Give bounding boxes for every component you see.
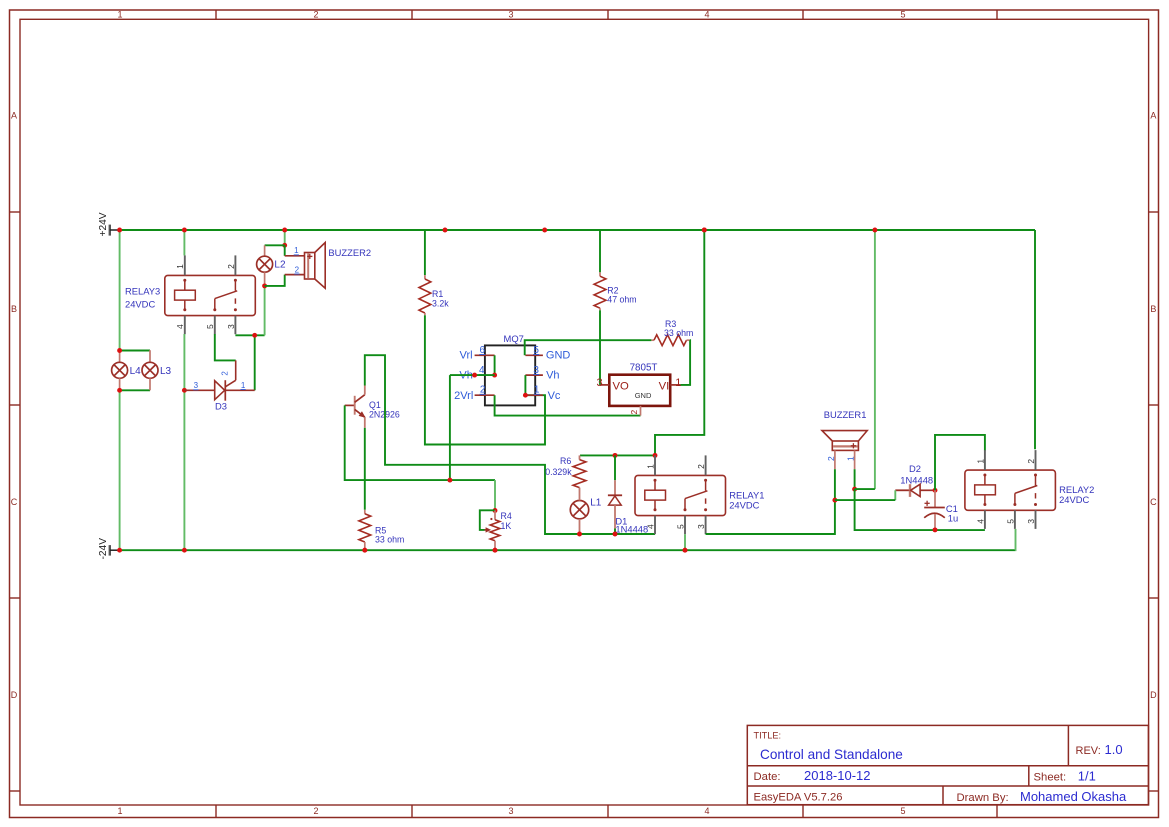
svg-text:3: 3 — [194, 381, 199, 390]
transistor Q1 — [345, 404, 355, 406]
wire +24V to lamps (light) — [119, 230, 121, 351]
svg-text:7805T: 7805T — [630, 363, 658, 374]
junction base net — [447, 478, 452, 483]
thyristor D3 — [184, 389, 214, 391]
wire R1 to MQ7 Vc — [425, 315, 545, 444]
junction +24V rail — [182, 228, 187, 233]
wire D2 cathode jog (light) — [894, 490, 896, 500]
wire R2 to 7805 VO — [599, 310, 601, 385]
wire MQ7 pin4 left — [450, 374, 495, 376]
svg-text:RELAY3: RELAY3 — [125, 285, 160, 296]
wire R6 top net — [580, 454, 655, 456]
svg-text:Vh: Vh — [546, 370, 559, 382]
junction rail dot b — [542, 228, 547, 233]
svg-text:BUZZER1: BUZZER1 — [824, 409, 867, 420]
junction R4 rail — [493, 548, 498, 553]
junction D2 anode node — [933, 488, 938, 493]
svg-text:24VDC: 24VDC — [125, 299, 155, 310]
svg-text:3: 3 — [1026, 519, 1036, 524]
wire Q1 collector loop — [365, 355, 655, 534]
lamp L4 — [119, 351, 121, 363]
junction D3 pin3 node — [182, 388, 187, 393]
wire lamp bottom jumper — [120, 389, 150, 391]
junction -24V rail — [182, 548, 187, 553]
svg-text:3: 3 — [226, 324, 236, 329]
svg-text:3: 3 — [508, 806, 513, 816]
svg-text:4: 4 — [704, 806, 709, 816]
wire MQ7 pin4 to base net — [449, 375, 451, 480]
svg-text:1/1: 1/1 — [1078, 768, 1096, 783]
wire rail to R2 — [599, 230, 601, 272]
potentiometer R4 — [485, 529, 489, 531]
lamp L2 — [264, 245, 266, 256]
junction BUZZER1 pin1 node — [852, 487, 857, 492]
svg-text:Sheet:: Sheet: — [1034, 771, 1067, 783]
resistor R6 — [579, 455, 581, 459]
svg-text:R6: R6 — [560, 456, 571, 466]
svg-text:-24V: -24V — [98, 538, 109, 560]
svg-text:L4: L4 — [130, 366, 142, 377]
title block — [747, 725, 1148, 804]
svg-text:2: 2 — [226, 264, 236, 269]
-24V power flag — [109, 545, 111, 556]
junction bottom lamps — [117, 388, 122, 393]
svg-text:4: 4 — [645, 524, 655, 529]
svg-text:3: 3 — [597, 377, 603, 389]
junction +24V rail — [872, 228, 877, 233]
IC MQ7 gas sensor — [485, 345, 535, 405]
svg-text:1: 1 — [117, 806, 122, 816]
resistor R2 — [599, 272, 601, 276]
svg-text:R4: R4 — [501, 511, 512, 521]
svg-text:5: 5 — [1005, 519, 1015, 524]
svg-text:1: 1 — [175, 264, 185, 269]
svg-text:D: D — [1150, 690, 1157, 700]
junction -24V rail — [362, 548, 367, 553]
junction rail dot feed — [702, 228, 707, 233]
wire rail to R1 — [424, 230, 426, 275]
svg-text:VI: VI — [659, 380, 670, 392]
wire +24V rail — [120, 229, 1035, 231]
svg-text:33 ohm: 33 ohm — [375, 535, 404, 545]
resistor R1 — [424, 275, 426, 279]
svg-text:1N4448: 1N4448 — [615, 524, 648, 535]
svg-text:2: 2 — [313, 806, 318, 816]
svg-text:L1: L1 — [590, 498, 602, 509]
svg-text:B: B — [1150, 304, 1156, 314]
svg-text:5: 5 — [900, 806, 905, 816]
diode D1 — [614, 455, 616, 480]
svg-text:GND: GND — [546, 350, 571, 362]
svg-text:33 ohm: 33 ohm — [664, 328, 693, 338]
svg-text:1: 1 — [675, 377, 681, 389]
svg-text:4: 4 — [175, 324, 185, 329]
wire rail to BUZZER1 (light) — [874, 230, 876, 489]
wire MQ7 pin6-pin4 jumper — [494, 355, 496, 375]
wire BUZZER1 pin2 drop — [834, 469, 836, 500]
wire node to BUZZER2 pin1 — [284, 245, 286, 256]
wire RELAY3 pin4 down (light) — [183, 334, 185, 390]
svg-text:MQ7: MQ7 — [504, 333, 524, 344]
buzzer BUZZER2 — [285, 255, 305, 257]
junction RELAY3 pin3 node — [252, 333, 257, 338]
svg-text:Mohamed Okasha: Mohamed Okasha — [1020, 789, 1127, 804]
wire -24V rail — [120, 549, 1016, 551]
svg-text:1.0: 1.0 — [1105, 742, 1123, 757]
svg-text:GND: GND — [635, 391, 652, 400]
junction MQ7 pin1 — [523, 393, 528, 398]
junction rail dot a — [443, 228, 448, 233]
lamp L1 — [570, 501, 588, 519]
svg-text:L2: L2 — [274, 260, 286, 271]
svg-text:Drawn By:: Drawn By: — [957, 792, 1009, 804]
junction C1 bottom — [933, 527, 938, 532]
wire lamp L1 circle top stub — [579, 488, 581, 501]
junction BUZZER1 pin2 node — [832, 498, 837, 503]
junction R5 rail — [362, 548, 367, 553]
wire riser to L2 bottom (light) — [264, 286, 266, 335]
svg-text:2: 2 — [826, 456, 836, 461]
junction -24V rail — [493, 548, 498, 553]
svg-text:2Vrl: 2Vrl — [454, 390, 473, 402]
wire MQ7 pin2 to 7805 GND — [495, 395, 641, 415]
junction MQ7 pin4 outer — [472, 373, 477, 378]
junction L2 bottom node — [262, 283, 267, 288]
wire BUZZER1 pin1 drop — [854, 469, 856, 489]
junction RELAY1 pin5 rail — [683, 548, 688, 553]
junction -24V rail — [683, 548, 688, 553]
wire BUZZER1 node to riser — [855, 488, 875, 490]
svg-text:B: B — [11, 304, 17, 314]
junction L2 top node — [282, 243, 287, 248]
svg-text:4: 4 — [704, 10, 709, 20]
wire L2 bottom jumper — [265, 275, 285, 286]
svg-text:1: 1 — [975, 459, 985, 464]
svg-text:1K: 1K — [501, 521, 512, 531]
wire +24V feed to RELAY1 pin1 — [655, 230, 704, 455]
wire Q1 emitter to R5 — [364, 428, 366, 510]
svg-text:C: C — [1150, 497, 1157, 507]
svg-text:3: 3 — [696, 524, 706, 529]
svg-text:Date:: Date: — [754, 771, 781, 783]
svg-text:3: 3 — [508, 10, 513, 20]
svg-text:3.2k: 3.2k — [432, 299, 449, 309]
svg-text:2: 2 — [696, 464, 706, 469]
resistor R5 — [364, 510, 366, 514]
svg-text:D2: D2 — [909, 463, 921, 474]
svg-text:1: 1 — [241, 381, 246, 390]
wire MQ7 pin3 to pin1 — [524, 375, 526, 395]
svg-text:5: 5 — [205, 324, 215, 329]
diode D2 — [895, 489, 910, 491]
wire drop to D3 pin1 — [254, 335, 256, 390]
junction MQ7 pin4 inner — [492, 373, 497, 378]
svg-text:0.329k: 0.329k — [545, 467, 572, 477]
wire BUZZER1 node to RELAY2 pin4 — [855, 489, 985, 530]
svg-text:Control and Standalone: Control and Standalone — [760, 747, 903, 762]
wire lamps to -24V (light) — [119, 390, 121, 550]
+24V power flag — [109, 225, 111, 236]
svg-text:1: 1 — [846, 456, 856, 461]
junction R4 top — [493, 508, 498, 513]
wire RELAY1 pin3 to BUZZER1 pin2 — [706, 500, 835, 534]
junction D1 top — [613, 453, 618, 458]
wire RELAY3 pin5 to D3 gate — [215, 334, 236, 360]
svg-text:24VDC: 24VDC — [1059, 494, 1089, 505]
junction +24V rail — [117, 228, 122, 233]
svg-text:24VDC: 24VDC — [729, 499, 759, 510]
wire R4 wiper loop — [480, 510, 495, 530]
svg-text:1: 1 — [117, 10, 122, 20]
wire RELAY3 pin1 riser (light) — [183, 230, 185, 255]
svg-text:A: A — [11, 111, 17, 121]
svg-text:5: 5 — [900, 10, 905, 20]
wire R3 to 7805 VI — [680, 340, 690, 385]
regulator 7805T — [609, 375, 670, 406]
junction L1 bottom — [577, 532, 582, 537]
relay RELAY3 — [165, 275, 256, 315]
svg-text:TITLE:: TITLE: — [754, 731, 782, 741]
svg-text:2: 2 — [295, 265, 300, 274]
svg-text:1N4448: 1N4448 — [900, 474, 933, 485]
svg-text:D3: D3 — [215, 401, 227, 412]
wire base net to R4 (light) — [494, 480, 496, 510]
svg-text:1u: 1u — [948, 512, 958, 523]
svg-text:5: 5 — [675, 524, 685, 529]
svg-text:C: C — [11, 497, 18, 507]
svg-text:VO: VO — [613, 380, 630, 392]
relay RELAY1 — [635, 475, 726, 515]
svg-text:47 ohm: 47 ohm — [607, 295, 636, 305]
junction D1 bottom — [613, 532, 618, 537]
wire RELAY3 pin4 to -24V (light) — [183, 390, 185, 550]
svg-text:2: 2 — [313, 10, 318, 20]
svg-text:D: D — [11, 690, 18, 700]
junction +24V rail — [282, 228, 287, 233]
junction +24V rail — [702, 228, 707, 233]
wire MQ7 pin5 to R3 — [525, 340, 652, 355]
svg-text:Vrl: Vrl — [460, 350, 473, 362]
wire Q1 base down — [345, 405, 495, 480]
svg-text:2: 2 — [1026, 459, 1036, 464]
svg-text:+24V: +24V — [98, 212, 109, 236]
relay RELAY2 — [965, 470, 1056, 510]
svg-text:2: 2 — [220, 371, 229, 376]
wire rail to L2 node (light) — [284, 230, 286, 245]
svg-text:REV:: REV: — [1076, 745, 1101, 757]
svg-text:1: 1 — [645, 464, 655, 469]
svg-text:4: 4 — [975, 519, 985, 524]
svg-text:BUZZER2: BUZZER2 — [328, 247, 371, 258]
svg-text:A: A — [1150, 111, 1156, 121]
wire RELAY1 pin5 to -24V (light) — [684, 534, 686, 550]
wire D2 jog to BUZZER1 pin2 — [835, 499, 895, 501]
junction -24V rail — [117, 548, 122, 553]
svg-text:EasyEDA V5.7.26: EasyEDA V5.7.26 — [754, 792, 843, 804]
svg-text:1: 1 — [294, 246, 299, 255]
wire RELAY2 pin5 to -24V (light) — [1014, 529, 1016, 550]
junction RELAY1 pin1 node — [653, 453, 658, 458]
junction top lamps — [117, 348, 122, 353]
svg-text:Vc: Vc — [548, 390, 561, 402]
wire D2 node to RELAY2 pin1 — [935, 435, 985, 490]
svg-text:2: 2 — [629, 410, 639, 415]
wire +24V rail drop to RELAY2 pin2 — [1034, 230, 1036, 449]
wire RELAY3 pin3 net — [235, 334, 264, 336]
buzzer BUZZER1 — [822, 431, 867, 441]
svg-text:L3: L3 — [160, 366, 172, 377]
wire L2 top jumper — [265, 244, 285, 246]
svg-text:2018-10-12: 2018-10-12 — [804, 768, 871, 783]
capacitor C1 — [934, 490, 936, 507]
wire lamp top jumper — [120, 350, 150, 352]
resistor R3 — [651, 339, 654, 341]
lamp L3 — [149, 350, 151, 362]
